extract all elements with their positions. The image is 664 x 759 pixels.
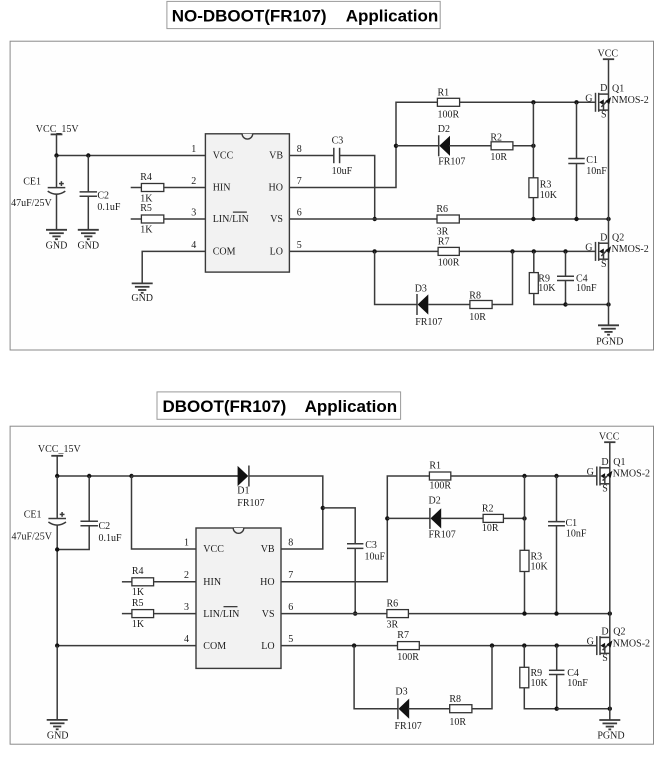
- wire C1 to VS: [576, 164, 578, 220]
- title NO-DBOOT(FR107) Application: [167, 1, 440, 28]
- capacitor C2 0.1uF: [80, 156, 121, 230]
- svg-text:100R: 100R: [429, 480, 451, 491]
- svg-text:1: 1: [184, 537, 189, 548]
- wire D1 to VB: [249, 476, 325, 549]
- ground GND (CE1): [46, 230, 68, 252]
- transistor Q1 NMOS-2 (DBOOT): [587, 457, 650, 495]
- svg-text:4: 4: [184, 634, 189, 645]
- svg-text:10uF: 10uF: [332, 166, 353, 177]
- svg-text:3R: 3R: [387, 620, 399, 631]
- resistor R7 100R (DBOOT): [397, 630, 419, 663]
- ground PGND: [596, 325, 623, 347]
- svg-text:C3: C3: [365, 540, 377, 551]
- svg-text:1K: 1K: [140, 225, 153, 236]
- wire C1 to VS (DBOOT): [556, 526, 558, 614]
- op-amp U1 gate driver IC: [205, 134, 289, 272]
- border frame of DBOOT circuit: [10, 426, 653, 744]
- svg-text:R4: R4: [140, 172, 152, 183]
- svg-text:10R: 10R: [469, 312, 486, 323]
- svg-text:3: 3: [191, 207, 196, 218]
- svg-text:R2: R2: [490, 132, 502, 143]
- svg-text:5: 5: [288, 634, 293, 645]
- svg-text:1K: 1K: [132, 619, 145, 630]
- svg-text:D: D: [600, 232, 607, 243]
- wire VS to R6: [289, 218, 437, 220]
- svg-text:DBOOT(FR107): DBOOT(FR107): [163, 397, 287, 416]
- wire R6 to half-bridge node (DBOOT): [408, 611, 612, 615]
- resistor R3 10K: [529, 178, 558, 201]
- svg-text:Application: Application: [305, 397, 398, 416]
- svg-text:S: S: [601, 110, 607, 121]
- svg-text:C2: C2: [99, 521, 111, 532]
- wire R3 to VS: [532, 198, 534, 219]
- wire gate node to R3: [532, 102, 534, 178]
- wire COM to ground: [142, 251, 205, 283]
- svg-text:R4: R4: [132, 566, 144, 577]
- svg-text:10nF: 10nF: [586, 166, 607, 177]
- wire rail to D1: [132, 475, 239, 477]
- resistor R5 1K: [131, 203, 206, 236]
- svg-text:7: 7: [288, 570, 293, 581]
- resistor R3 10K (DBOOT): [520, 550, 549, 572]
- svg-text:R5: R5: [140, 203, 152, 214]
- resistor R1 100R (DBOOT): [429, 460, 451, 491]
- resistor R4 1K (DBOOT): [122, 566, 196, 598]
- transistor Q2 NMOS-2 (DBOOT): [587, 627, 650, 665]
- capacitor CE1 electrolytic 47uF/25V (DBOOT): [11, 476, 66, 646]
- svg-text:10K: 10K: [531, 562, 549, 573]
- svg-text:VB: VB: [269, 151, 283, 162]
- svg-text:10R: 10R: [482, 523, 499, 534]
- diode D2 FR107: [438, 124, 466, 168]
- svg-text:S: S: [602, 653, 608, 664]
- wire R7 to gate Q2 (DBOOT): [419, 643, 597, 647]
- wire R7 to gate Q2: [459, 249, 595, 253]
- svg-text:10nF: 10nF: [567, 678, 588, 689]
- svg-text:100R: 100R: [438, 109, 460, 120]
- svg-text:VCC: VCC: [213, 151, 234, 162]
- wire HO to D2: [396, 145, 439, 147]
- power flag VCC_15V (DBOOT): [38, 444, 82, 476]
- svg-text:D1: D1: [237, 486, 249, 497]
- resistor R2 10R (DBOOT): [482, 503, 504, 534]
- svg-text:FR107: FR107: [429, 530, 456, 541]
- svg-text:R2: R2: [482, 503, 494, 514]
- ground GND (DBOOT): [47, 720, 69, 741]
- svg-text:LIN/LIN: LIN/LIN: [203, 609, 239, 620]
- svg-text:10uF: 10uF: [365, 552, 386, 563]
- svg-text:LIN/LIN: LIN/LIN: [213, 214, 249, 225]
- transistor Q2 NMOS-2: [585, 232, 648, 269]
- wire R9 to source rail (DBOOT): [524, 688, 556, 709]
- svg-text:D2: D2: [429, 495, 441, 506]
- wire R2 to node (DBOOT): [503, 516, 526, 520]
- svg-text:FR107: FR107: [415, 317, 442, 328]
- svg-text:VCC: VCC: [598, 49, 619, 60]
- svg-text:8: 8: [297, 144, 302, 155]
- svg-text:PGND: PGND: [596, 336, 623, 347]
- wire LO to C4 (DBOOT): [556, 646, 558, 671]
- resistor R6 3R (DBOOT): [387, 598, 409, 630]
- ground GND (C2): [77, 230, 99, 252]
- svg-text:R7: R7: [397, 630, 409, 641]
- wire VCC_15V rail: [54, 153, 205, 157]
- svg-text:4: 4: [191, 240, 196, 251]
- resistor R7 100R: [438, 236, 460, 268]
- wire D3 to R8: [428, 304, 470, 306]
- svg-text:10nF: 10nF: [566, 529, 587, 540]
- svg-text:R8: R8: [469, 291, 481, 302]
- svg-text:R1: R1: [438, 88, 450, 99]
- wire R6 to half-bridge node: [459, 217, 610, 221]
- svg-text:NMOS-2: NMOS-2: [612, 95, 649, 106]
- wire HO to D2 (DBOOT): [387, 517, 430, 519]
- svg-text:HIN: HIN: [203, 577, 221, 588]
- pin numbers U2: [184, 537, 293, 645]
- svg-text:47uF/25V: 47uF/25V: [11, 198, 52, 209]
- svg-text:NO-DBOOT(FR107): NO-DBOOT(FR107): [172, 7, 327, 26]
- svg-text:100R: 100R: [438, 257, 460, 268]
- svg-text:R6: R6: [436, 204, 448, 215]
- svg-text:100R: 100R: [397, 652, 419, 663]
- power flag VCC_15V: [36, 124, 80, 155]
- svg-text:Application: Application: [346, 7, 439, 26]
- wire gate to C1: [576, 102, 578, 158]
- svg-text:COM: COM: [213, 247, 236, 258]
- svg-text:10K: 10K: [538, 283, 556, 294]
- wire VCC pin riser (DBOOT): [132, 476, 197, 549]
- wire source rail to PGND node (DBOOT): [557, 707, 612, 711]
- ground GND (COM): [131, 283, 153, 304]
- svg-text:R7: R7: [438, 236, 450, 247]
- svg-text:GND: GND: [46, 241, 68, 252]
- svg-text:10nF: 10nF: [576, 283, 597, 294]
- svg-text:NMOS-2: NMOS-2: [613, 638, 650, 649]
- resistor R9 10K: [529, 273, 556, 295]
- svg-text:FR107: FR107: [438, 157, 465, 168]
- wire LO to R9: [533, 251, 535, 272]
- wire LO to D3: [375, 251, 417, 304]
- svg-text:G: G: [587, 637, 594, 648]
- wire source rail to PGND node: [566, 302, 611, 306]
- svg-text:0.1uF: 0.1uF: [99, 533, 123, 544]
- svg-text:Q1: Q1: [612, 83, 624, 94]
- svg-text:VS: VS: [270, 214, 283, 225]
- wire C3 to VS (DBOOT): [353, 548, 357, 615]
- wire gate node to R3 (DBOOT): [524, 476, 526, 550]
- svg-text:Q1: Q1: [613, 457, 625, 468]
- svg-text:C3: C3: [332, 136, 344, 147]
- svg-text:LO: LO: [261, 641, 274, 652]
- svg-text:D: D: [601, 627, 608, 638]
- svg-text:Q2: Q2: [612, 232, 624, 243]
- svg-text:R6: R6: [387, 598, 399, 609]
- wire VCC_15V rail (DBOOT): [55, 474, 238, 478]
- power flag VCC: [598, 49, 619, 60]
- resistor R5 1K (DBOOT): [122, 598, 196, 630]
- pin numbers U1: [191, 144, 302, 251]
- transistor Q1 NMOS-2: [585, 83, 648, 121]
- svg-text:D2: D2: [438, 124, 450, 135]
- svg-text:10K: 10K: [540, 190, 558, 201]
- svg-text:HO: HO: [260, 577, 274, 588]
- wire left rail to ground (DBOOT): [56, 646, 58, 720]
- wire R1 to gate Q1 (DBOOT): [451, 474, 597, 478]
- wire R3 to VS (DBOOT): [524, 572, 526, 614]
- svg-text:R8: R8: [449, 694, 461, 705]
- resistor R2 10R: [490, 132, 513, 163]
- svg-text:G: G: [587, 467, 594, 478]
- wire D2 to R2 (DBOOT): [441, 517, 484, 519]
- svg-text:8: 8: [288, 537, 293, 548]
- svg-text:VCC: VCC: [599, 432, 620, 443]
- svg-text:2: 2: [191, 176, 196, 187]
- wire LO to R7: [289, 249, 438, 253]
- capacitor CE1 electrolytic 47uF/25V: [11, 156, 65, 230]
- svg-text:10R: 10R: [490, 152, 507, 163]
- capacitor C2 0.1uF (DBOOT): [55, 476, 122, 552]
- wire C4 to source rail: [563, 281, 567, 307]
- svg-text:6: 6: [297, 207, 302, 218]
- svg-text:C1: C1: [566, 518, 578, 529]
- wire VB branch to C3: [323, 508, 355, 544]
- title DBOOT(FR107) Application: [157, 392, 401, 419]
- svg-text:Q2: Q2: [613, 627, 625, 638]
- svg-text:HO: HO: [269, 183, 283, 194]
- diode D3 FR107 (DBOOT): [395, 687, 422, 733]
- svg-text:VCC_15V: VCC_15V: [38, 444, 82, 455]
- svg-text:GND: GND: [77, 241, 99, 252]
- resistor R9 10K (DBOOT): [520, 667, 549, 689]
- svg-text:CE1: CE1: [24, 509, 42, 520]
- wire C4 to source rail (DBOOT): [555, 675, 559, 711]
- wire LO to C4: [565, 251, 567, 276]
- svg-text:S: S: [602, 483, 608, 494]
- ground PGND (DBOOT): [597, 720, 624, 742]
- wire R8 riser to LO (DBOOT): [472, 646, 492, 709]
- wire HO riser: [289, 102, 437, 187]
- svg-text:5: 5: [297, 240, 302, 251]
- diode D3 FR107: [415, 284, 443, 329]
- svg-text:D: D: [601, 457, 608, 468]
- svg-text:R5: R5: [132, 598, 144, 609]
- svg-text:HIN: HIN: [213, 183, 231, 194]
- resistor R6 3R: [436, 204, 459, 237]
- wire D3 to R8 (DBOOT): [409, 708, 450, 710]
- diode D2 FR107 (DBOOT): [429, 495, 456, 540]
- wire LO to R7 (DBOOT): [281, 643, 398, 647]
- wire VS to R6 (DBOOT): [281, 613, 387, 615]
- svg-text:0.1uF: 0.1uF: [97, 202, 121, 213]
- wire LO to R9 (DBOOT): [523, 646, 525, 668]
- resistor R8 10R (DBOOT): [449, 694, 472, 728]
- wire half-bridge drain column (DBOOT): [609, 442, 611, 720]
- svg-text:S: S: [601, 259, 607, 270]
- svg-text:G: G: [585, 93, 592, 104]
- border frame of NO-DBOOT circuit: [10, 41, 653, 350]
- svg-text:LO: LO: [270, 247, 283, 258]
- wire R2 to node: [513, 144, 536, 148]
- svg-text:VS: VS: [262, 609, 275, 620]
- svg-text:C1: C1: [586, 155, 598, 166]
- wire HO riser (DBOOT): [281, 476, 429, 582]
- op-amp U2 gate driver IC (DBOOT): [196, 528, 281, 668]
- capacitor C1 10nF (DBOOT): [548, 518, 587, 540]
- svg-text:2: 2: [184, 570, 189, 581]
- resistor R8 10R: [469, 291, 492, 323]
- wire R9 to source rail: [534, 294, 566, 305]
- diode D1 FR107: [237, 466, 264, 510]
- svg-text:D3: D3: [415, 284, 427, 295]
- svg-text:VCC: VCC: [203, 544, 224, 555]
- capacitor C4 10nF: [557, 273, 597, 294]
- svg-text:D: D: [600, 83, 607, 94]
- svg-text:CE1: CE1: [23, 177, 41, 188]
- svg-text:VB: VB: [261, 544, 275, 555]
- svg-text:1K: 1K: [132, 587, 145, 598]
- wire LO to D3 (DBOOT): [354, 646, 398, 709]
- svg-text:R1: R1: [429, 460, 441, 471]
- wire VB to C3: [289, 155, 333, 157]
- svg-text:D3: D3: [395, 687, 407, 698]
- wire C3 to VS: [340, 156, 377, 222]
- svg-text:GND: GND: [131, 293, 153, 304]
- svg-text:10K: 10K: [531, 678, 549, 689]
- capacitor C1 10nF: [568, 155, 607, 177]
- wire R1 to gate Q1: [460, 100, 596, 104]
- wire half-bridge drain column: [608, 59, 610, 325]
- svg-text:C2: C2: [97, 191, 109, 202]
- svg-text:G: G: [585, 243, 592, 254]
- capacitor C4 10nF (DBOOT): [549, 668, 588, 689]
- wire D2 to R2: [449, 145, 491, 147]
- wire COM rail (DBOOT): [55, 643, 196, 647]
- resistor R4 1K: [131, 172, 206, 205]
- svg-text:NMOS-2: NMOS-2: [613, 469, 650, 480]
- capacitor C3 10uF (DBOOT): [347, 540, 386, 563]
- wire gate to C1 (DBOOT): [556, 476, 558, 522]
- capacitor C3 10uF: [332, 136, 353, 177]
- svg-text:47uF/25V: 47uF/25V: [11, 532, 52, 543]
- svg-text:1: 1: [191, 144, 196, 155]
- svg-text:6: 6: [288, 602, 293, 613]
- power flag VCC (DBOOT): [599, 432, 620, 443]
- svg-text:7: 7: [297, 176, 302, 187]
- resistor R1 100R: [437, 88, 459, 121]
- svg-text:10R: 10R: [449, 717, 466, 728]
- svg-text:PGND: PGND: [597, 731, 624, 742]
- svg-text:NMOS-2: NMOS-2: [612, 244, 649, 255]
- wire R8 riser to LO: [492, 251, 512, 304]
- svg-text:GND: GND: [47, 730, 69, 741]
- svg-text:FR107: FR107: [395, 721, 422, 732]
- svg-text:COM: COM: [203, 641, 226, 652]
- svg-text:FR107: FR107: [237, 498, 264, 509]
- svg-text:R3: R3: [540, 179, 552, 190]
- svg-text:3: 3: [184, 602, 189, 613]
